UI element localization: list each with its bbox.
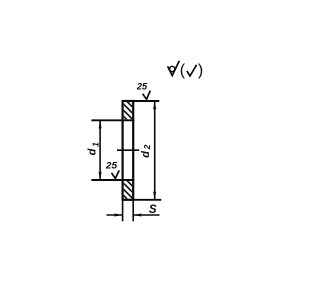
svg-text:2: 2 bbox=[142, 144, 152, 150]
svg-text:(: ( bbox=[180, 62, 186, 79]
svg-text:): ) bbox=[198, 62, 203, 79]
svg-text:d: d bbox=[140, 151, 152, 158]
svg-text:d: d bbox=[86, 148, 98, 155]
svg-text:1: 1 bbox=[91, 142, 101, 147]
svg-text:25: 25 bbox=[136, 82, 147, 92]
svg-text:25: 25 bbox=[105, 161, 117, 171]
svg-text:S: S bbox=[149, 204, 157, 216]
